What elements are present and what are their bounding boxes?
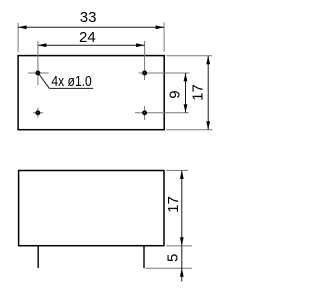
extension line 17 bottom (top view) (166, 129, 212, 131)
hole crosshair bottom-right (135, 112, 189, 114)
bottom view body outline (19, 171, 164, 246)
svg-text:24: 24 (79, 29, 96, 46)
extension line 33 left (17, 23, 19, 53)
leader underline (49, 87, 93, 89)
hole top-left (36, 72, 39, 75)
leader arrow for hole note (39, 75, 49, 89)
extension line 24 left (through hole) (37, 41, 39, 85)
pin left (37, 246, 39, 268)
svg-text:5: 5 (164, 254, 181, 262)
svg-text:9: 9 (167, 90, 184, 98)
hole crosshair top-right (139, 72, 190, 74)
hole bottom-left (36, 111, 39, 114)
dimension line 17 (top view) (207, 56, 209, 130)
dimension line 24 (38, 44, 145, 46)
hole crosshair bottom-left (33, 112, 43, 114)
extension line 17 top (bottom view) (166, 169, 188, 171)
hole crosshair top-left (28, 72, 49, 74)
dimension line 9 (185, 73, 187, 113)
pin right (143, 246, 145, 268)
extension line 24 right (through hole) (144, 41, 146, 80)
svg-text:17: 17 (190, 84, 207, 101)
svg-text:33: 33 (80, 9, 97, 26)
dimension line 33 (18, 26, 164, 28)
extension line shared (body bottom) (166, 245, 192, 247)
dimension line 5 (through span and tail below) (181, 246, 183, 268)
svg-text:17: 17 (165, 196, 182, 213)
extension line 33 right (163, 23, 165, 52)
dimension line 17 (bottom view) (181, 170, 183, 245)
extension line pin end (146, 267, 193, 269)
svg-text:4x ø1.0: 4x ø1.0 (51, 74, 91, 90)
hole top-right (143, 72, 146, 75)
hole bottom-right (143, 111, 146, 114)
extension line 17 top (top view) (166, 55, 212, 57)
top view body outline (18, 56, 164, 130)
